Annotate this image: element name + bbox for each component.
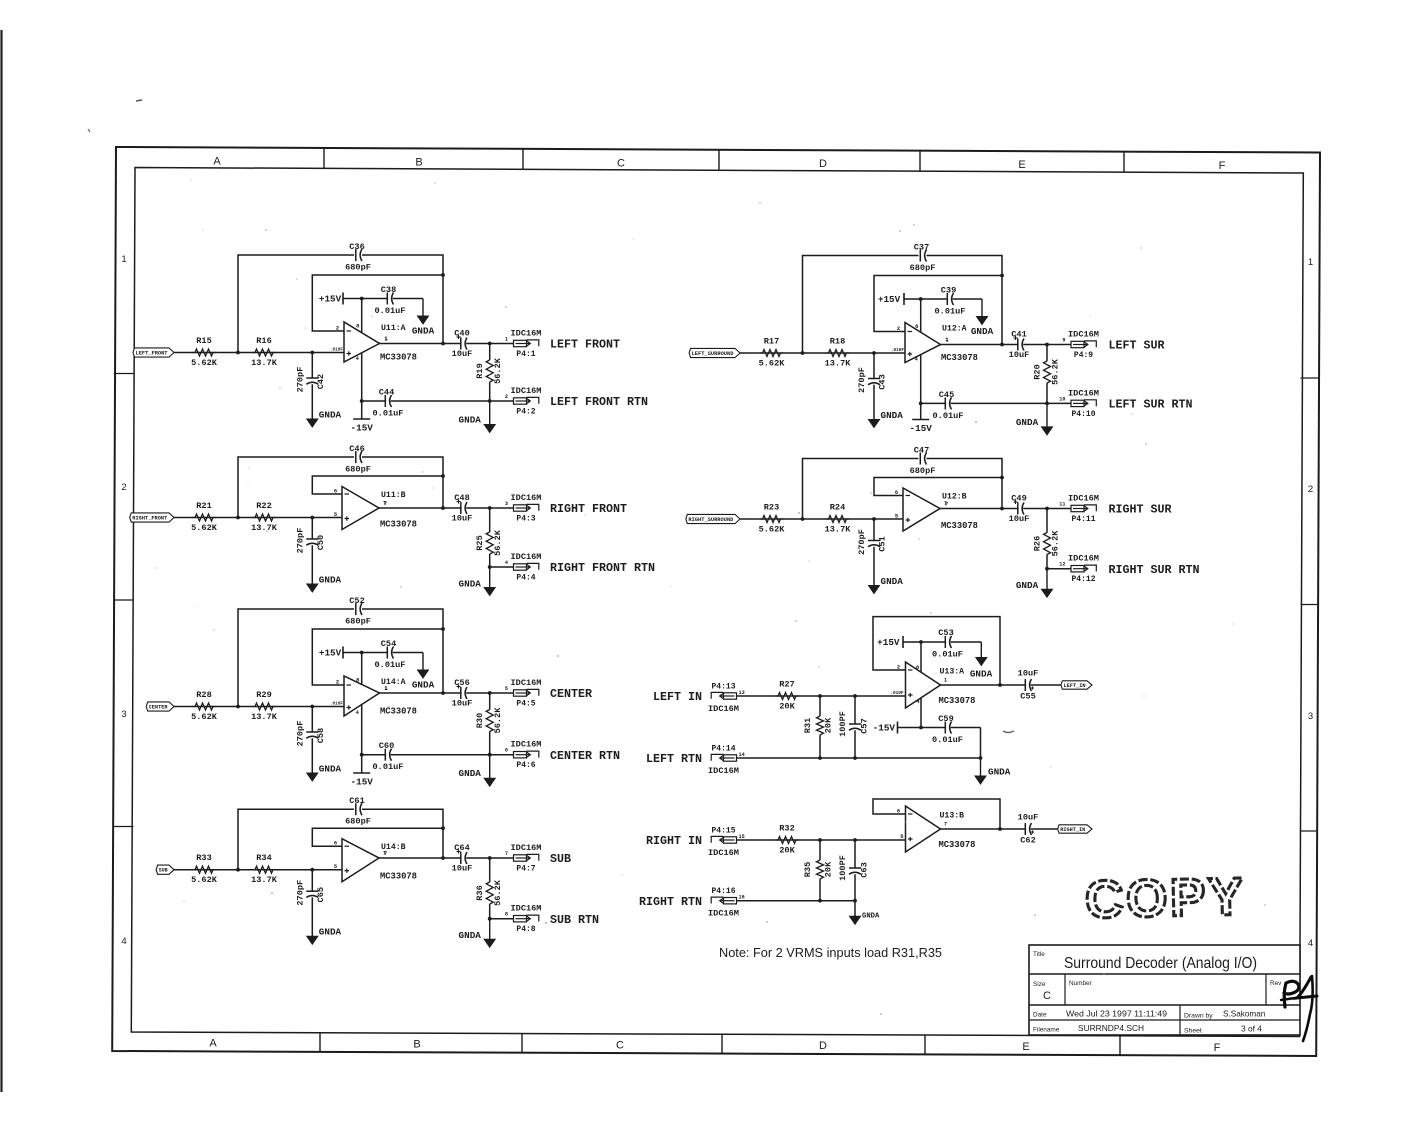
svg-text:270pF: 270pF bbox=[857, 367, 867, 393]
svg-text:2: 2 bbox=[897, 326, 900, 332]
svg-text:IDC16M: IDC16M bbox=[511, 904, 542, 914]
svg-text:U13:A: U13:A bbox=[940, 668, 965, 677]
svg-text:E: E bbox=[1022, 1041, 1029, 1053]
svg-text:1: 1 bbox=[1308, 257, 1313, 268]
svg-text:IDC16M: IDC16M bbox=[1068, 330, 1099, 340]
svg-text:3 of 4: 3 of 4 bbox=[1241, 1024, 1262, 1034]
svg-text:100PF: 100PF bbox=[838, 711, 848, 737]
svg-text:56.2K: 56.2K bbox=[493, 357, 503, 384]
svg-text:0.01uF: 0.01uF bbox=[373, 762, 404, 772]
svg-text:C56: C56 bbox=[454, 678, 469, 688]
svg-text:13: 13 bbox=[739, 690, 745, 696]
svg-text:680pF: 680pF bbox=[345, 465, 371, 475]
svg-text:0.01uF: 0.01uF bbox=[933, 411, 964, 421]
svg-text:IDC16M: IDC16M bbox=[1068, 554, 1099, 564]
svg-text:4: 4 bbox=[121, 936, 126, 947]
svg-text:C57: C57 bbox=[860, 718, 870, 733]
svg-text:+15V: +15V bbox=[319, 294, 342, 305]
svg-text:7: 7 bbox=[944, 501, 947, 507]
svg-text:100PF: 100PF bbox=[838, 855, 848, 881]
svg-text:1: 1 bbox=[121, 254, 126, 265]
svg-text:R24: R24 bbox=[830, 503, 845, 513]
svg-text:SUB: SUB bbox=[550, 852, 572, 866]
svg-text:5.62K: 5.62K bbox=[759, 359, 786, 369]
svg-text:C64: C64 bbox=[454, 843, 469, 853]
svg-text:R17: R17 bbox=[764, 337, 779, 347]
svg-text:C61: C61 bbox=[349, 796, 364, 806]
svg-text:2: 2 bbox=[505, 394, 508, 400]
svg-text:4: 4 bbox=[915, 357, 919, 363]
svg-text:9: 9 bbox=[1062, 338, 1065, 344]
svg-text:MC33078: MC33078 bbox=[939, 696, 976, 706]
svg-text:GNDA: GNDA bbox=[319, 575, 342, 586]
svg-text:C: C bbox=[616, 1039, 624, 1051]
svg-text:Filename: Filename bbox=[1033, 1027, 1060, 1034]
svg-text:RIGHT_IN: RIGHT_IN bbox=[1060, 827, 1085, 833]
svg-text:5.62K: 5.62K bbox=[191, 875, 218, 885]
svg-text:56.2K: 56.2K bbox=[1051, 358, 1061, 385]
svg-text:C65: C65 bbox=[316, 887, 326, 902]
svg-text:U11:A: U11:A bbox=[381, 324, 406, 333]
svg-text:RIGHT SUR: RIGHT SUR bbox=[1109, 502, 1173, 516]
svg-text:RIGHT_SURROUND: RIGHT_SURROUND bbox=[688, 517, 733, 523]
svg-text:GNDA: GNDA bbox=[319, 764, 342, 775]
svg-text:P4:14: P4:14 bbox=[711, 745, 735, 754]
svg-text:5.62K: 5.62K bbox=[191, 712, 218, 722]
svg-text:R27: R27 bbox=[779, 680, 794, 690]
svg-text:13.7K: 13.7K bbox=[251, 712, 278, 722]
svg-text:GNDA: GNDA bbox=[1016, 580, 1039, 591]
svg-text:R20: R20 bbox=[1033, 364, 1043, 379]
svg-text:C38: C38 bbox=[381, 285, 396, 295]
svg-text:C36: C36 bbox=[349, 242, 364, 252]
svg-text:6: 6 bbox=[895, 490, 898, 496]
svg-text:1: 1 bbox=[384, 336, 387, 342]
svg-text:GNDA: GNDA bbox=[881, 576, 904, 587]
svg-text:5: 5 bbox=[895, 514, 898, 520]
svg-text:P4:12: P4:12 bbox=[1071, 575, 1095, 584]
svg-text:10uF: 10uF bbox=[1009, 514, 1030, 524]
svg-text:56.2K: 56.2K bbox=[1051, 530, 1061, 557]
svg-text:Note: For 2 VRMS inputs load R: Note: For 2 VRMS inputs load R31,R35 bbox=[719, 945, 942, 960]
svg-text:C60: C60 bbox=[379, 741, 394, 751]
svg-text:.010F: .010F bbox=[890, 691, 904, 696]
svg-text:0.01uF: 0.01uF bbox=[935, 307, 966, 317]
svg-text:C54: C54 bbox=[381, 639, 396, 649]
svg-text:GNDA: GNDA bbox=[319, 410, 342, 421]
svg-text:R16: R16 bbox=[256, 336, 271, 346]
svg-text:Title: Title bbox=[1033, 951, 1045, 958]
svg-text:1: 1 bbox=[505, 337, 508, 343]
svg-text:0.01uF: 0.01uF bbox=[932, 735, 963, 745]
svg-text:10uF: 10uF bbox=[452, 699, 473, 709]
svg-text:GNDA: GNDA bbox=[459, 768, 482, 779]
svg-text:13.7K: 13.7K bbox=[251, 523, 278, 533]
svg-text:MC33078: MC33078 bbox=[941, 521, 978, 531]
svg-text:MC33078: MC33078 bbox=[941, 353, 978, 363]
svg-text:P4:10: P4:10 bbox=[1071, 410, 1095, 419]
svg-text:R22: R22 bbox=[256, 501, 271, 511]
svg-text:R26: R26 bbox=[1033, 536, 1043, 551]
svg-text:LEFT_SURROUND: LEFT_SURROUND bbox=[692, 351, 734, 357]
svg-text:5.62K: 5.62K bbox=[191, 523, 218, 533]
svg-text:B: B bbox=[413, 1038, 420, 1050]
svg-text:P4:9: P4:9 bbox=[1074, 351, 1093, 360]
svg-text:C44: C44 bbox=[379, 388, 394, 398]
svg-text:Date: Date bbox=[1033, 1012, 1047, 1019]
svg-text:10uF: 10uF bbox=[452, 864, 473, 874]
svg-text:4: 4 bbox=[1308, 938, 1313, 949]
svg-text:R19: R19 bbox=[475, 363, 485, 378]
svg-text:56.2K: 56.2K bbox=[493, 707, 503, 734]
svg-text:5: 5 bbox=[505, 686, 508, 692]
svg-text:IDC16M: IDC16M bbox=[511, 329, 542, 339]
svg-text:.010F: .010F bbox=[891, 348, 905, 353]
svg-text:LEFT_IN: LEFT_IN bbox=[1064, 683, 1086, 689]
svg-text:20K: 20K bbox=[779, 846, 795, 856]
svg-text:MC33078: MC33078 bbox=[380, 353, 417, 363]
svg-text:IDC16M: IDC16M bbox=[708, 909, 739, 919]
svg-text:GNDA: GNDA bbox=[988, 767, 1011, 778]
svg-text:IDC16M: IDC16M bbox=[511, 678, 542, 688]
svg-text:270pF: 270pF bbox=[295, 880, 305, 906]
svg-text:LEFT SUR: LEFT SUR bbox=[1109, 338, 1166, 352]
svg-text:P4:3: P4:3 bbox=[516, 515, 535, 524]
svg-text:IDC16M: IDC16M bbox=[1068, 494, 1099, 504]
svg-text:11: 11 bbox=[1059, 502, 1065, 508]
svg-text:SUB RTN: SUB RTN bbox=[550, 913, 599, 927]
svg-text:C41: C41 bbox=[1011, 330, 1026, 340]
svg-text:2: 2 bbox=[336, 680, 339, 686]
svg-text:5: 5 bbox=[334, 512, 337, 518]
svg-text:R36: R36 bbox=[475, 885, 485, 900]
svg-text:E: E bbox=[1018, 159, 1025, 171]
svg-text:LEFT IN: LEFT IN bbox=[653, 690, 702, 704]
svg-text:GNDA: GNDA bbox=[459, 930, 482, 941]
svg-text:C39: C39 bbox=[941, 286, 956, 296]
svg-text:C62: C62 bbox=[1020, 836, 1035, 846]
svg-text:MC33078: MC33078 bbox=[380, 872, 417, 882]
svg-text:Rev: Rev bbox=[1270, 980, 1282, 987]
svg-text:D: D bbox=[819, 1040, 827, 1052]
svg-text:P4:15: P4:15 bbox=[711, 827, 735, 836]
svg-text:-15V: -15V bbox=[351, 423, 374, 434]
svg-text:GNDA: GNDA bbox=[862, 913, 880, 921]
svg-text:7: 7 bbox=[383, 851, 386, 857]
svg-text:IDC16M: IDC16M bbox=[708, 704, 739, 714]
svg-text:10uF: 10uF bbox=[1018, 669, 1039, 679]
svg-text:R34: R34 bbox=[256, 853, 271, 863]
svg-text:C45: C45 bbox=[939, 390, 954, 400]
svg-text:P4:1: P4:1 bbox=[516, 350, 535, 359]
svg-text:F: F bbox=[1214, 1042, 1221, 1054]
svg-text:R30: R30 bbox=[475, 713, 485, 728]
svg-text:+15V: +15V bbox=[319, 648, 342, 659]
svg-text:5: 5 bbox=[900, 834, 903, 840]
svg-text:MC33078: MC33078 bbox=[380, 707, 417, 717]
svg-text:F: F bbox=[1219, 160, 1226, 172]
svg-text:GNDA: GNDA bbox=[319, 927, 342, 938]
svg-text:P4:5: P4:5 bbox=[516, 700, 535, 709]
svg-text:D: D bbox=[819, 158, 827, 170]
svg-text:LEFT RTN: LEFT RTN bbox=[646, 752, 702, 766]
svg-text:20K: 20K bbox=[824, 861, 834, 877]
svg-text:IDC16M: IDC16M bbox=[511, 552, 542, 562]
svg-text:P4:4: P4:4 bbox=[516, 574, 535, 583]
svg-text:10: 10 bbox=[1059, 396, 1065, 402]
svg-text:P4:7: P4:7 bbox=[516, 865, 535, 874]
svg-text:5.62K: 5.62K bbox=[191, 358, 218, 368]
svg-text:10uF: 10uF bbox=[1018, 813, 1039, 823]
svg-text:56.2K: 56.2K bbox=[493, 879, 503, 906]
svg-text:C58: C58 bbox=[316, 728, 326, 743]
svg-text:C59: C59 bbox=[938, 714, 953, 724]
svg-text:GNDA: GNDA bbox=[971, 326, 994, 337]
svg-text:2: 2 bbox=[1308, 484, 1313, 495]
svg-text:SUB: SUB bbox=[159, 868, 168, 874]
svg-text:Number: Number bbox=[1069, 980, 1093, 987]
svg-text:RIGHT IN: RIGHT IN bbox=[646, 834, 702, 848]
svg-text:LEFT FRONT: LEFT FRONT bbox=[550, 337, 620, 351]
svg-text:IDC16M: IDC16M bbox=[511, 740, 542, 750]
svg-text:0.01uF: 0.01uF bbox=[375, 660, 406, 670]
svg-text:0.01uF: 0.01uF bbox=[373, 409, 404, 419]
svg-text:4: 4 bbox=[356, 710, 360, 716]
svg-text:14: 14 bbox=[739, 752, 745, 758]
svg-text:R21: R21 bbox=[196, 501, 211, 511]
svg-text:270pF: 270pF bbox=[295, 528, 305, 554]
svg-text:P4:2: P4:2 bbox=[516, 408, 535, 417]
svg-text:A: A bbox=[209, 1038, 217, 1050]
svg-text:CENTER RTN: CENTER RTN bbox=[550, 749, 620, 763]
svg-text:LEFT_FRONT: LEFT_FRONT bbox=[136, 350, 168, 356]
svg-text:U11:B: U11:B bbox=[381, 491, 406, 500]
svg-text:270pF: 270pF bbox=[295, 721, 305, 747]
svg-text:P4:11: P4:11 bbox=[1071, 515, 1095, 524]
svg-text:-15V: -15V bbox=[910, 423, 933, 434]
svg-text:15: 15 bbox=[739, 834, 745, 840]
svg-text:MC33078: MC33078 bbox=[939, 840, 976, 850]
svg-text:10uF: 10uF bbox=[452, 514, 473, 524]
svg-text:IDC16M: IDC16M bbox=[708, 766, 739, 776]
svg-text:8: 8 bbox=[916, 665, 919, 671]
svg-text:GNDA: GNDA bbox=[412, 680, 435, 691]
svg-text:RIGHT RTN: RIGHT RTN bbox=[639, 895, 702, 909]
svg-text:-15V: -15V bbox=[351, 777, 374, 788]
svg-text:COPY: COPY bbox=[1084, 867, 1246, 929]
svg-text:Wed Jul 23 1997 11:11:49: Wed Jul 23 1997 11:11:49 bbox=[1066, 1009, 1167, 1019]
svg-text:16: 16 bbox=[739, 895, 745, 901]
svg-text:680pF: 680pF bbox=[910, 263, 936, 273]
svg-text:Drawn by: Drawn by bbox=[1184, 1013, 1213, 1020]
svg-text:C47: C47 bbox=[914, 446, 929, 456]
svg-text:LEFT FRONT RTN: LEFT FRONT RTN bbox=[550, 395, 648, 409]
svg-text:5: 5 bbox=[334, 864, 337, 870]
svg-text:C46: C46 bbox=[349, 444, 364, 454]
svg-text:8: 8 bbox=[505, 912, 508, 918]
svg-text:.010F: .010F bbox=[330, 348, 344, 353]
svg-text:C43: C43 bbox=[878, 374, 888, 389]
svg-text:13.7K: 13.7K bbox=[825, 525, 852, 535]
svg-text:R18: R18 bbox=[830, 337, 845, 347]
svg-text:MC33078: MC33078 bbox=[380, 520, 417, 530]
svg-text:20K: 20K bbox=[779, 702, 795, 712]
svg-text:4: 4 bbox=[505, 560, 508, 566]
svg-text:U13:B: U13:B bbox=[940, 812, 965, 821]
svg-text:IDC16M: IDC16M bbox=[511, 843, 542, 853]
svg-text:GNDA: GNDA bbox=[881, 410, 904, 421]
svg-text:7: 7 bbox=[383, 501, 386, 507]
svg-text:0.01uF: 0.01uF bbox=[375, 306, 406, 316]
svg-text:CENTER: CENTER bbox=[550, 687, 593, 701]
svg-text:RIGHT FRONT RTN: RIGHT FRONT RTN bbox=[550, 561, 655, 575]
svg-text:.010F: .010F bbox=[330, 702, 344, 707]
svg-text:R28: R28 bbox=[196, 690, 211, 700]
svg-text:6: 6 bbox=[334, 841, 337, 847]
svg-text:8: 8 bbox=[356, 324, 359, 330]
svg-text:20K: 20K bbox=[824, 717, 834, 733]
svg-text:R15: R15 bbox=[196, 336, 211, 346]
svg-text:C: C bbox=[1043, 990, 1051, 1002]
svg-text:+15V: +15V bbox=[877, 637, 900, 648]
svg-text:R33: R33 bbox=[196, 853, 211, 863]
svg-text:12: 12 bbox=[1059, 562, 1065, 568]
svg-text:680pF: 680pF bbox=[345, 817, 371, 827]
svg-text:270pF: 270pF bbox=[857, 529, 867, 555]
svg-text:C63: C63 bbox=[860, 862, 870, 877]
svg-text:SURRNDP4.SCH: SURRNDP4.SCH bbox=[1078, 1023, 1144, 1033]
svg-text:13.7K: 13.7K bbox=[251, 358, 278, 368]
svg-text:Sheet: Sheet bbox=[1184, 1028, 1202, 1035]
svg-text:3: 3 bbox=[1308, 711, 1313, 722]
svg-text:1: 1 bbox=[384, 686, 387, 692]
svg-text:GNDA: GNDA bbox=[1016, 417, 1039, 428]
svg-text:680pF: 680pF bbox=[345, 263, 371, 273]
svg-text:C49: C49 bbox=[1011, 494, 1026, 504]
svg-text:R31: R31 bbox=[803, 718, 813, 733]
svg-text:4: 4 bbox=[916, 699, 920, 705]
svg-text:GNDA: GNDA bbox=[412, 326, 435, 337]
svg-text:CENTER: CENTER bbox=[149, 704, 168, 710]
svg-text:2: 2 bbox=[121, 482, 126, 493]
svg-text:P4:6: P4:6 bbox=[516, 761, 535, 770]
svg-text:C50: C50 bbox=[316, 535, 326, 550]
svg-text:-15V: -15V bbox=[873, 723, 896, 734]
svg-text:LEFT SUR RTN: LEFT SUR RTN bbox=[1109, 398, 1193, 412]
svg-text:7: 7 bbox=[505, 851, 508, 857]
svg-text:IDC16M: IDC16M bbox=[1068, 388, 1099, 398]
svg-text:IDC16M: IDC16M bbox=[511, 493, 542, 503]
svg-text:RIGHT_FRONT: RIGHT_FRONT bbox=[132, 515, 167, 521]
svg-text:P4:16: P4:16 bbox=[711, 887, 735, 896]
svg-text:10uF: 10uF bbox=[1009, 350, 1030, 360]
svg-text:B: B bbox=[415, 156, 422, 168]
svg-text:S.Sakoman: S.Sakoman bbox=[1223, 1010, 1266, 1019]
svg-text:1: 1 bbox=[945, 337, 948, 343]
svg-text:C: C bbox=[617, 157, 625, 169]
svg-text:GNDA: GNDA bbox=[970, 669, 993, 680]
svg-text:IDC16M: IDC16M bbox=[511, 386, 542, 396]
svg-text:GNDA: GNDA bbox=[459, 415, 482, 426]
svg-text:C42: C42 bbox=[316, 374, 326, 389]
svg-text:IDC16M: IDC16M bbox=[708, 848, 739, 858]
svg-text:56.2K: 56.2K bbox=[493, 529, 503, 556]
svg-text:6: 6 bbox=[505, 748, 508, 754]
svg-text:RIGHT SUR RTN: RIGHT SUR RTN bbox=[1109, 563, 1200, 577]
svg-text:R32: R32 bbox=[779, 824, 794, 834]
svg-text:P4:8: P4:8 bbox=[516, 925, 535, 934]
svg-text:6: 6 bbox=[334, 489, 337, 495]
svg-text:2: 2 bbox=[336, 326, 339, 332]
svg-text:Size: Size bbox=[1033, 981, 1046, 988]
svg-text:C51: C51 bbox=[878, 536, 888, 551]
svg-text:5.62K: 5.62K bbox=[759, 525, 786, 535]
svg-text:270pF: 270pF bbox=[295, 367, 305, 393]
svg-text:3: 3 bbox=[121, 709, 126, 720]
svg-text:GNDA: GNDA bbox=[459, 579, 482, 590]
svg-text:10uF: 10uF bbox=[452, 349, 473, 359]
svg-text:680pF: 680pF bbox=[910, 466, 936, 476]
svg-text:R23: R23 bbox=[764, 503, 779, 513]
svg-text:R29: R29 bbox=[256, 690, 271, 700]
svg-text:680pF: 680pF bbox=[345, 617, 371, 627]
svg-text:C37: C37 bbox=[914, 243, 929, 253]
svg-text:R35: R35 bbox=[803, 862, 813, 877]
svg-text:R25: R25 bbox=[475, 535, 485, 550]
svg-text:3: 3 bbox=[505, 501, 508, 507]
svg-text:C52: C52 bbox=[349, 596, 364, 606]
svg-text:0.01uF: 0.01uF bbox=[932, 650, 963, 660]
svg-text:C48: C48 bbox=[454, 493, 469, 503]
svg-text:A: A bbox=[213, 156, 221, 168]
svg-text:C53: C53 bbox=[938, 628, 953, 638]
svg-text:C55: C55 bbox=[1020, 692, 1035, 702]
svg-text:1: 1 bbox=[944, 678, 947, 684]
svg-text:13.7K: 13.7K bbox=[825, 359, 852, 369]
svg-text:+15V: +15V bbox=[878, 294, 901, 305]
svg-text:4: 4 bbox=[356, 356, 360, 362]
svg-text:7: 7 bbox=[944, 822, 947, 828]
svg-text:P4:13: P4:13 bbox=[711, 683, 735, 692]
svg-text:Surround Decoder (Analog I/O: Surround Decoder (Analog I/O) bbox=[1064, 955, 1257, 972]
svg-text:13.7K: 13.7K bbox=[251, 875, 278, 885]
svg-text:U12:A: U12:A bbox=[942, 325, 967, 334]
svg-text:RIGHT FRONT: RIGHT FRONT bbox=[550, 502, 627, 516]
svg-text:C40: C40 bbox=[454, 329, 469, 339]
